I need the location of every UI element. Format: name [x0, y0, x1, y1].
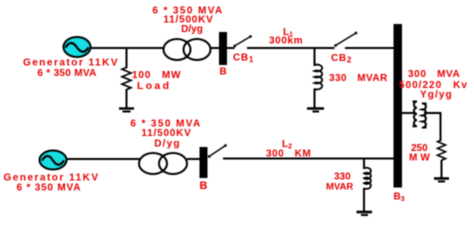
resistor R2 (250 MW): [438, 140, 446, 160]
ground (below top 330 MVAR inductor): [307, 109, 324, 112]
transformer T3 (500/220 kV winding symbol): [413, 102, 427, 128]
wire T3 to load R2: [424, 113, 441, 140]
svg-text:B: B: [220, 67, 227, 78]
wire CB1 to CB2 (line L1): [247, 47, 335, 49]
wire T2 to breaker B2: [187, 158, 200, 160]
wire junction drop to shunt reactor L1s: [314, 48, 316, 66]
transformer T1: [164, 39, 211, 60]
svg-text:Load: Load: [137, 80, 171, 92]
wire G1 to T1: [90, 47, 164, 49]
inductor 330 MVAR (top): [315, 65, 323, 90]
svg-text:D/yg: D/yg: [181, 24, 203, 35]
busbar B3: [394, 24, 403, 188]
ground (below R1): [119, 109, 134, 112]
svg-text:Yg/yg: Yg/yg: [420, 90, 453, 101]
wire B1 to switch CB1: [227, 47, 235, 49]
svg-text:B: B: [200, 180, 208, 192]
wire T1 to breaker B1: [211, 47, 220, 49]
svg-text:6 * 350 MVA: 6 * 350 MVA: [37, 68, 96, 79]
wire R2 to ground: [441, 160, 443, 178]
switch CB2 blade: [334, 32, 357, 47]
svg-text:CB2: CB2: [331, 53, 352, 65]
wire CB2 to busbar: [345, 47, 394, 49]
resistor R1: [122, 68, 131, 90]
svg-text:D/yg: D/yg: [154, 138, 180, 149]
svg-text:300 MVA: 300 MVA: [408, 69, 460, 80]
svg-text:300 KM: 300 KM: [266, 149, 311, 160]
wire junction drop to shunt reactor L2s: [363, 159, 365, 170]
generator G1: [64, 37, 91, 57]
wire busbar to transformer T3: [402, 112, 415, 114]
wire inductor to ground: [363, 188, 365, 212]
switch blade (bottom line): [208, 144, 227, 157]
transformer T2: [139, 153, 187, 174]
svg-text:330 MVAR: 330 MVAR: [329, 73, 388, 84]
wire switch to busbar (line L2): [223, 158, 394, 160]
wire inductor to ground: [314, 89, 316, 109]
breaker B2: [200, 147, 208, 178]
svg-text:MVAR: MVAR: [326, 182, 353, 193]
svg-text:6 * 350 MVA: 6 * 350 MVA: [17, 183, 82, 194]
inductor 330 MVAR (bottom): [364, 168, 371, 189]
ground (below R2): [434, 179, 449, 182]
wire G2 to T2: [66, 158, 140, 160]
wire junction drop to load R1: [126, 48, 128, 68]
breaker B1: [219, 32, 227, 65]
svg-text:MW: MW: [409, 153, 433, 164]
svg-text:300km: 300km: [269, 36, 303, 47]
ground (below bottom 330 MVAR inductor): [357, 212, 373, 215]
wire R1 to ground: [126, 89, 128, 108]
generator G2: [40, 151, 67, 170]
switch CB1 blade: [234, 35, 252, 47]
svg-text:CB1: CB1: [233, 53, 254, 65]
